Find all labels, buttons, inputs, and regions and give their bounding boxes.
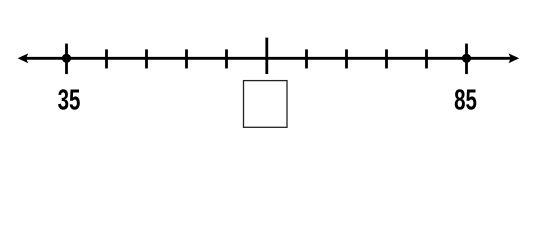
tick 35 (tall endpoint tick) (65, 44, 68, 75)
answer box (empty square under tick 60) (244, 81, 288, 128)
tick 80 (425, 49, 428, 68)
tick 45 (145, 49, 148, 68)
svg-text:85: 85 (454, 85, 477, 117)
point at 35 (filled dot) (62, 54, 71, 63)
tick 85 (tall endpoint tick) (465, 44, 468, 75)
point at 85 (filled dot) (462, 54, 471, 63)
tick 55 (225, 49, 228, 68)
number line axis (wire from left arrow to right arrow) (21, 57, 516, 60)
tick 50 (185, 49, 188, 68)
right arrowhead (509, 53, 520, 63)
tick 40 (105, 49, 108, 68)
tick 70 (345, 49, 348, 68)
svg-text:35: 35 (58, 85, 81, 117)
tick 75 (385, 49, 388, 68)
tick 65 (305, 49, 308, 68)
left arrowhead (18, 53, 29, 63)
tick 60 (tall middle tick) (265, 38, 268, 74)
